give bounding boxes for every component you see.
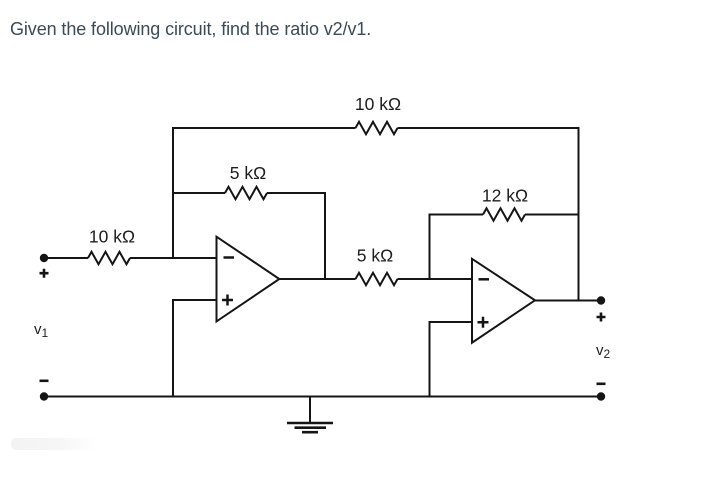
wire 5k feedback left segment: [172, 192, 225, 194]
resistor 5 kOhm series zigzag: [356, 273, 398, 285]
wire 12k feedback left segment: [430, 214, 484, 216]
faint smudge artifact: [11, 438, 97, 450]
svg-text:12 kΩ: 12 kΩ: [482, 186, 528, 206]
wire U1 output: [278, 278, 356, 280]
wire non-inverting input U1: [172, 299, 217, 301]
plus sign at v1: [40, 269, 49, 278]
left rail wire: [172, 127, 174, 259]
svg-text:10 kΩ: 10 kΩ: [89, 227, 135, 247]
bottom right terminal dot: [597, 392, 605, 400]
svg-text:v2: v2: [596, 342, 611, 361]
wire non-inverting vertical U2: [429, 321, 431, 398]
ground: [287, 397, 333, 433]
wire 12k feedback right segment: [525, 214, 579, 216]
minus sign at v2: [597, 382, 606, 385]
wire input right of resistor: [130, 257, 217, 259]
title text: [10, 19, 371, 40]
resistor 10 kOhm top feedback zigzag: [356, 122, 398, 134]
bottom left terminal dot: [40, 392, 48, 400]
op-amp U1: [217, 237, 280, 322]
svg-text:5 kΩ: 5 kΩ: [230, 163, 266, 183]
resistor 12 kOhm zigzag: [483, 208, 525, 220]
bottom rail wire: [44, 396, 601, 398]
wire top feedback left segment: [173, 127, 356, 129]
wire U2 output: [534, 300, 601, 302]
resistor 10 kOhm input zigzag: [88, 252, 130, 264]
resistor 5 kOhm feedback zigzag: [225, 187, 267, 199]
wire series right segment: [398, 278, 473, 280]
svg-text:v1: v1: [34, 321, 49, 340]
wire 5k feedback vertical: [324, 192, 326, 279]
svg-text:10 kΩ: 10 kΩ: [355, 94, 401, 114]
output terminal dot top right: [597, 296, 605, 304]
wire input left of resistor: [44, 257, 88, 259]
op-amp U2: [472, 259, 535, 343]
input terminal dot top left: [40, 254, 48, 262]
svg-text:5 kΩ: 5 kΩ: [357, 246, 393, 266]
wire 12k feedback vertical: [429, 214, 431, 281]
plus sign at v2: [597, 313, 606, 322]
minus sign at v1: [40, 379, 49, 382]
wire 5k feedback right segment: [267, 192, 325, 194]
wire non-inverting vertical U1: [172, 299, 174, 398]
right rail wire: [578, 127, 580, 302]
wire top feedback right segment: [398, 127, 579, 129]
wire non-inverting input U2: [429, 321, 473, 323]
